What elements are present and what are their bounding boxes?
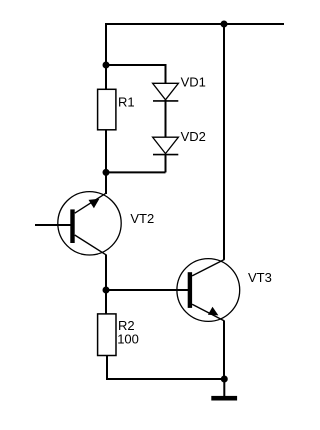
svg-text:VD2: VD2 (181, 129, 206, 144)
wire VT3 collector to top rail (223, 24, 225, 260)
diode VD1 (153, 83, 179, 101)
node C junction dot (103, 169, 110, 176)
wire R2 bottom to bottom rail (107, 356, 224, 379)
wire VT3 emitter down to ground node (223, 321, 225, 380)
resistor R2 (98, 314, 116, 356)
wire top horizontal rail (105, 23, 284, 25)
wire node C to VT2 emitter (105, 172, 107, 194)
wire ground stub (223, 379, 225, 396)
svg-text:VD1: VD1 (181, 74, 206, 89)
wire node B to R2 top (105, 290, 107, 314)
node A junction dot (103, 62, 110, 69)
node G junction dot (221, 376, 228, 383)
transistor VT3 (177, 259, 240, 322)
wire node A to diode branch (106, 64, 166, 66)
ground (211, 396, 237, 401)
node T junction on top rail (221, 21, 228, 28)
wire diode branch upper segment (165, 64, 167, 84)
svg-text:VT2: VT2 (130, 211, 154, 226)
wire left vertical from top rail to node A (105, 23, 107, 65)
transistor VT2 (58, 192, 121, 255)
node B junction dot (103, 287, 110, 294)
svg-text:VT3: VT3 (248, 270, 272, 285)
wire R1 bottom to node C (105, 130, 107, 173)
resistor R1 (98, 89, 116, 130)
wire between VD1 and VD2 (165, 100, 167, 137)
wire diode branch lower segment (165, 154, 167, 172)
diode VD2 (153, 137, 179, 154)
wire node A to R1 top (105, 65, 107, 90)
wire diode branch to node C (106, 171, 166, 173)
wire VT2 base lead (35, 224, 73, 226)
wire node B to VT3 base (106, 289, 189, 291)
wire VT2 collector to node B (105, 255, 107, 291)
svg-text:R1: R1 (118, 94, 135, 109)
svg-text:100: 100 (117, 331, 139, 346)
